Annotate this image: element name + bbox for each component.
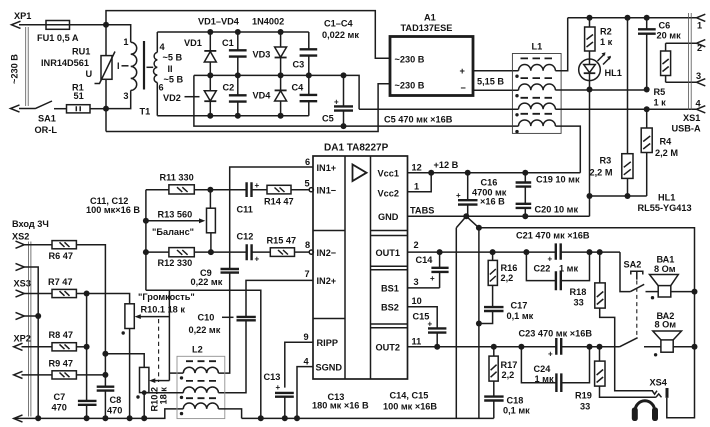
resistor R11 330 — [146, 189, 169, 191]
capacitor C23 470uF — [556, 338, 561, 355]
pin 2 wire OUT1 — [408, 251, 621, 253]
svg-text:R15 47: R15 47 — [267, 236, 297, 246]
wire R5 to XS1 pin3 — [666, 81, 697, 83]
svg-text:R3: R3 — [600, 156, 612, 166]
node C22 split — [523, 249, 529, 255]
pin 5 wire IN1- — [291, 189, 309, 191]
svg-text:C23 470 мк ×16В: C23 470 мк ×16В — [519, 329, 593, 339]
svg-text:A1: A1 — [424, 13, 436, 23]
speaker BA1 8 Ohm — [650, 275, 679, 286]
wire A1 plus output 5,15V — [473, 70, 519, 72]
capacitor C19 10uF — [524, 173, 526, 204]
svg-text:Vcc1: Vcc1 — [378, 169, 399, 179]
resistor R1 51 — [67, 105, 91, 113]
svg-text:VD3: VD3 — [253, 50, 271, 60]
svg-text:R2: R2 — [600, 27, 612, 37]
inductor L1 box — [512, 54, 561, 134]
pin 6 wire IN1+ — [230, 167, 313, 269]
svg-text:180 мк ×16 В: 180 мк ×16 В — [312, 401, 369, 411]
wire bridge middle rail — [194, 75, 359, 109]
svg-text:C21 470 мк ×16В: C21 470 мк ×16В — [516, 231, 590, 241]
svg-text:IN2+: IN2+ — [317, 276, 337, 286]
varistor RU1 INR14D561 — [105, 25, 107, 56]
svg-text:ВА1: ВА1 — [657, 255, 675, 265]
capacitor C1 — [237, 32, 239, 75]
pin 4 wire SGND — [297, 367, 313, 419]
svg-text:×16 В: ×16 В — [480, 197, 505, 207]
node R10.2 feed — [102, 351, 108, 357]
wire +12V rail — [408, 172, 581, 174]
IC DA1 outer box — [313, 156, 408, 379]
node C22 rejoin — [587, 249, 593, 255]
node C24 split — [518, 344, 524, 350]
svg-text:RL55-YG413: RL55-YG413 — [638, 203, 692, 213]
wire R6 to mix vertical — [76, 245, 105, 387]
svg-text:II: II — [168, 64, 173, 74]
wire mains rail to A1 input 2 — [106, 84, 390, 132]
connector XS1 pin3 arrow — [697, 79, 706, 86]
capacitor C24 1uF loop — [521, 347, 589, 383]
node rail C8 — [102, 415, 108, 421]
capacitor C9 0,22uF — [221, 269, 240, 273]
wire XP1 cable double line — [26, 27, 29, 106]
node HL1 return — [587, 193, 593, 199]
svg-text:XP1: XP1 — [14, 11, 31, 21]
svg-text:0,22 мк: 0,22 мк — [189, 325, 221, 335]
resistor R6 47 — [52, 241, 76, 249]
fuse FU1 — [46, 21, 70, 30]
inductor L2 winding 2 — [183, 387, 218, 393]
node speaker return — [476, 225, 482, 231]
svg-text:3: 3 — [123, 91, 128, 101]
inductor L1 winding 1 — [519, 65, 556, 71]
resistor R5 1k — [665, 43, 667, 51]
node mid VD4 — [278, 72, 284, 78]
svg-text:C17: C17 — [511, 301, 528, 311]
svg-text:C5 470 мк ×16В: C5 470 мк ×16В — [384, 115, 453, 125]
pin 7 wire IN2+ — [246, 280, 313, 316]
wire bridge bottom rail — [157, 115, 308, 117]
resistor R14 47 — [267, 185, 291, 194]
wire balance node feed — [146, 290, 261, 418]
svg-text:470: 470 — [52, 403, 67, 413]
resistor R8 47 — [52, 343, 76, 351]
svg-text:+: + — [456, 191, 461, 200]
svg-text:100 мк ×16В: 100 мк ×16В — [383, 402, 437, 412]
svg-text:C14, C15: C14, C15 — [390, 391, 429, 401]
svg-text:RU1: RU1 — [72, 47, 90, 57]
IC DA1 amp triangle — [353, 165, 367, 182]
svg-text:C4: C4 — [292, 83, 305, 93]
resistor R19 33 — [599, 347, 601, 361]
svg-text:6: 6 — [305, 157, 310, 167]
wire ground left vertical — [455, 228, 457, 418]
capacitor C20 10uF — [524, 208, 526, 216]
wire HL1 return — [589, 90, 591, 217]
svg-text:12: 12 — [412, 163, 422, 173]
svg-text:SA2: SA2 — [624, 260, 642, 270]
wire XP2 pin2 to R9 — [22, 374, 53, 376]
wire HL1 to minus line — [589, 81, 591, 90]
wire XS2 pin2 down — [24, 267, 38, 418]
switch SA2 pole 1 — [620, 252, 630, 292]
capacitor C5 electrolytic — [343, 75, 345, 126]
wire C9 down to L2 w1 — [218, 273, 229, 374]
node mid C5 — [341, 72, 347, 78]
svg-text:XS4: XS4 — [650, 378, 668, 388]
resistor R15 47 — [270, 248, 294, 257]
svg-text:IN2−: IN2− — [317, 248, 337, 258]
inductor L1 winding 2 — [519, 84, 556, 90]
connector XS2 pin1 arrow — [16, 241, 25, 248]
wire bottom ground rail right — [242, 417, 494, 419]
pin 8 wire IN2- — [295, 251, 310, 253]
svg-text:2,2: 2,2 — [502, 370, 515, 380]
svg-text:4: 4 — [696, 99, 702, 109]
resistor R17 2,2 — [493, 347, 495, 356]
connector XP1 pin 1 arrow — [12, 21, 21, 28]
svg-text:HL1: HL1 — [605, 68, 622, 78]
potentiometer R10.2 — [140, 367, 149, 392]
svg-text:C1: C1 — [222, 38, 234, 48]
svg-text:9: 9 — [304, 332, 309, 342]
pin 1 Vcc2 jog — [408, 173, 432, 192]
capacitor C4 — [308, 75, 310, 115]
diode VD3 — [280, 32, 282, 75]
resistor R3 2,2M — [627, 18, 629, 154]
svg-text:USB-A: USB-A — [672, 124, 701, 134]
node bottom VD2 — [207, 113, 213, 119]
svg-text:I: I — [117, 61, 120, 71]
node top VD1 — [207, 29, 213, 35]
svg-text:C5: C5 — [322, 114, 334, 124]
svg-text:C20 10 мк: C20 10 мк — [535, 205, 579, 215]
svg-text:1 к: 1 к — [654, 98, 667, 108]
inductor L2 winding 3 — [183, 403, 218, 409]
node R11 C11 R13 — [207, 187, 213, 193]
capacitor C11 — [194, 189, 267, 191]
node mid VD2 — [207, 72, 213, 78]
svg-text:Vcc2: Vcc2 — [378, 189, 399, 199]
resistor R2 1k — [589, 18, 591, 27]
svg-text:C2: C2 — [223, 83, 235, 93]
node R12 left — [143, 249, 149, 255]
diode VD4 — [280, 75, 282, 115]
pin 3 wire BS1 — [408, 287, 440, 289]
svg-text:R8 47: R8 47 — [49, 330, 74, 340]
svg-text:C1–C4: C1–C4 — [324, 19, 353, 29]
switch SA2 gang dashes — [636, 281, 638, 337]
svg-text:R6 47: R6 47 — [49, 251, 74, 261]
svg-text:R16: R16 — [501, 263, 518, 273]
svg-text:+: + — [255, 255, 260, 264]
svg-text:OR-L: OR-L — [35, 125, 58, 135]
svg-text:11: 11 — [412, 337, 422, 347]
svg-text:C24: C24 — [534, 364, 552, 374]
node C6 bottom — [644, 87, 650, 93]
svg-text:INR14D561: INR14D561 — [41, 58, 89, 68]
svg-text:2: 2 — [697, 43, 702, 53]
inductor L2 winding 1 — [183, 367, 218, 373]
wire L1 w1 to USB plus line — [555, 18, 567, 71]
capacitor C6 20uF — [646, 18, 648, 90]
svg-text:C11: C11 — [237, 205, 253, 215]
wire R3 R4 bottom — [590, 195, 647, 197]
diode VD2 — [209, 75, 211, 115]
svg-text:VD4: VD4 — [253, 91, 272, 101]
svg-text:BS2: BS2 — [381, 303, 399, 313]
svg-text:C18: C18 — [507, 396, 524, 406]
connector XP1 pin 2 arrow — [11, 105, 20, 112]
speaker BA2 8 Ohm — [653, 331, 682, 340]
svg-text:8 Ом: 8 Ом — [654, 264, 676, 274]
svg-text:R7 47: R7 47 — [48, 277, 73, 287]
wire trunk to L2 w1 — [169, 372, 183, 374]
svg-text:HL1: HL1 — [658, 193, 675, 203]
transformer T1 secondary winding II — [156, 32, 158, 52]
svg-text:VD2: VD2 — [163, 93, 181, 103]
node feed rail — [258, 415, 264, 421]
svg-text:18 к: 18 к — [159, 387, 169, 405]
svg-text:SGND: SGND — [316, 363, 343, 373]
svg-text:0,22 мк: 0,22 мк — [191, 277, 223, 287]
svg-text:C10: C10 — [198, 313, 215, 323]
connector XS1 pin1 arrow — [697, 14, 706, 21]
wire plus loop to LC rail — [194, 75, 519, 126]
svg-text:100 мк×16 В: 100 мк×16 В — [86, 205, 140, 215]
resistor R4 2,2M — [646, 109, 648, 128]
node C14 — [437, 249, 443, 255]
svg-text:C8: C8 — [110, 395, 122, 405]
inductor L2 box — [177, 356, 225, 418]
node bottom C2 — [235, 113, 241, 119]
node rail XS2 — [35, 415, 41, 421]
svg-text:R10.1 18 к: R10.1 18 к — [141, 305, 186, 315]
node rail C7 — [84, 415, 90, 421]
node R8 junction — [84, 344, 90, 350]
connector XS1 pin2 arrow — [697, 40, 706, 47]
node R7 R8 — [84, 291, 90, 297]
svg-text:2: 2 — [414, 240, 419, 250]
node C19 top — [522, 170, 528, 176]
node rail R10.2 — [141, 415, 147, 421]
node mid C2 — [235, 72, 241, 78]
node pin1 rail — [428, 170, 434, 176]
svg-text:+: + — [276, 383, 281, 392]
node A junction — [103, 22, 109, 28]
svg-text:R14 47: R14 47 — [264, 197, 294, 207]
svg-text:XS1: XS1 — [683, 113, 700, 123]
node w2 R10.2 — [142, 390, 147, 395]
input cable shield lines — [28, 242, 31, 417]
connector XP2 pin1 arrow — [14, 343, 23, 350]
node rail SGND — [294, 415, 300, 421]
node R13 wiper — [143, 218, 149, 224]
wire node B down to mains rail — [105, 109, 107, 132]
node C16 top — [465, 170, 471, 176]
capacitor C10 0,22uF — [237, 317, 256, 320]
wire bottom ground rail left — [14, 409, 184, 419]
svg-text:C13: C13 — [264, 372, 281, 382]
capacitor C18 0,1uF — [484, 397, 503, 401]
transformer T1 core — [143, 41, 145, 90]
svg-text:R13 560: R13 560 — [158, 210, 193, 220]
wire L1 w3 to XS1 pin4 — [555, 108, 696, 110]
svg-text:IN1−: IN1− — [317, 185, 337, 195]
svg-text:OUT2: OUT2 — [376, 343, 401, 353]
svg-text:C22: C22 — [534, 264, 551, 274]
wire ground right vertical — [478, 228, 480, 418]
connector XS1 pin4 arrow — [697, 106, 706, 113]
svg-text:R9 47: R9 47 — [49, 359, 74, 369]
node C5 bottom — [341, 123, 347, 129]
wire XS3 pin1 to R7 — [24, 293, 52, 295]
wire R7 R8 C7 vertical — [86, 294, 88, 401]
capacitor C7 470 — [78, 401, 97, 405]
node R9 junction — [102, 372, 108, 378]
svg-text:DA1 TA8227P: DA1 TA8227P — [324, 143, 389, 154]
svg-text:L2: L2 — [192, 345, 203, 355]
wire R9 to mix vertical — [76, 374, 105, 376]
wire R8 to mix vertical — [76, 346, 86, 348]
svg-text:C12: C12 — [237, 232, 254, 242]
svg-text:U: U — [86, 69, 93, 79]
svg-text:10: 10 — [412, 296, 422, 306]
wire L2 w3 right to ground rail — [218, 409, 241, 419]
node BA2 return — [692, 344, 698, 350]
svg-text:T1: T1 — [140, 107, 151, 117]
svg-text:BS1: BS1 — [381, 284, 399, 294]
resistor R9 47 — [52, 371, 76, 379]
node bottom VD4 — [278, 113, 284, 119]
svg-text:"Громкость": "Громкость" — [138, 292, 195, 302]
wire L1 w2 minus line — [555, 89, 646, 91]
svg-text:C16: C16 — [481, 178, 498, 188]
svg-text:R4: R4 — [660, 137, 673, 147]
svg-text:SA1: SA1 — [38, 114, 56, 124]
node BA1 return — [692, 289, 698, 295]
svg-text:1N4002: 1N4002 — [252, 17, 284, 27]
connector XS3 pin1 arrow — [16, 290, 25, 297]
svg-text:33: 33 — [574, 298, 584, 308]
node TABS C20 — [522, 213, 528, 219]
pin 11 wire OUT2 — [408, 346, 620, 348]
node R12 C12 R13 — [208, 249, 214, 255]
resistor R12 330 — [146, 251, 169, 253]
svg-text:20 мк: 20 мк — [657, 31, 682, 41]
node XS3 pin2 — [35, 313, 41, 319]
svg-text:51: 51 — [74, 91, 84, 101]
wire speaker return rail — [479, 228, 695, 418]
connector XS3 pin2 arrow — [16, 312, 25, 319]
connector XP2 pin2 arrow — [14, 371, 23, 378]
switch SA1 — [19, 108, 35, 110]
node C15 OUT2 — [434, 344, 440, 350]
svg-text:470: 470 — [107, 406, 122, 416]
node mid C4 — [306, 72, 312, 78]
node C24 rejoin — [587, 344, 593, 350]
node top VD3 — [278, 29, 284, 35]
svg-text:L1: L1 — [532, 42, 543, 52]
wire balance left vertical — [145, 190, 147, 291]
transformer T1 primary — [106, 25, 131, 43]
svg-text:1: 1 — [697, 21, 702, 31]
node R2 top — [587, 15, 593, 21]
LED HL1 — [589, 51, 591, 59]
svg-text:8: 8 — [305, 240, 310, 250]
svg-text:5: 5 — [305, 179, 310, 189]
svg-text:Вход 3Ч: Вход 3Ч — [12, 219, 49, 229]
node R3 top — [625, 15, 631, 21]
svg-text:+12 В: +12 В — [434, 160, 459, 170]
wire XS3 pin2 stub — [24, 315, 38, 317]
inductor L1 winding 3 — [519, 103, 556, 109]
connector XS2 pin2 arrow — [16, 263, 25, 270]
svg-text:"Баланс": "Баланс" — [152, 227, 194, 237]
svg-text:C3: C3 — [293, 60, 305, 70]
capacitor C2 — [237, 75, 239, 115]
svg-text:2,2 М: 2,2 М — [590, 168, 613, 178]
wire XP1 to FU1 — [19, 24, 106, 26]
switch SA2 pole 2 — [620, 338, 638, 347]
wire top border to A1 input 1 — [106, 11, 390, 59]
svg-text:1: 1 — [123, 37, 128, 47]
capacitor C12 — [194, 251, 270, 253]
wire SA1 to R1 — [54, 108, 67, 110]
node rail R10.1 — [127, 415, 133, 421]
node R17 top — [491, 344, 497, 350]
capacitor C3 — [308, 32, 310, 75]
gang link dashes R10 — [158, 319, 160, 382]
svg-text:0,022 мк: 0,022 мк — [322, 30, 359, 40]
diode VD1 — [209, 32, 211, 75]
svg-text:+: + — [430, 274, 435, 283]
wire A1 minus output — [473, 89, 519, 91]
wire USB top rail — [568, 17, 697, 19]
svg-text:0,1 мк: 0,1 мк — [503, 406, 530, 416]
svg-text:C7: C7 — [54, 392, 66, 402]
resistor R18 33 — [599, 252, 601, 283]
node R18 top — [597, 249, 603, 255]
IC DA1 partitions — [345, 156, 371, 379]
svg-text:−: − — [461, 83, 466, 93]
svg-text:+: + — [460, 66, 465, 76]
svg-text:7: 7 — [305, 269, 310, 279]
wire L2 w2 left to R10.2 — [144, 392, 183, 394]
svg-text:RIPP: RIPP — [317, 338, 338, 348]
wire C10 down to L2 w2 — [218, 320, 246, 393]
svg-text:TABS: TABS — [410, 206, 434, 216]
wire XS2 pin1 to R6 — [24, 244, 52, 246]
svg-text:~5 В: ~5 В — [163, 53, 183, 63]
svg-text:+: + — [548, 350, 553, 359]
node C6 top — [644, 15, 650, 21]
svg-text:8 Ом: 8 Ом — [655, 320, 677, 330]
resistor R16 2,2 — [492, 252, 494, 260]
capacitor C21 470uF — [556, 243, 561, 259]
svg-text:VD1: VD1 — [184, 38, 202, 48]
wire L1 w4 to +12V rail — [555, 126, 580, 173]
svg-text:IN1+: IN1+ — [317, 163, 337, 173]
wire rectifier plus to L1 winding 3 — [359, 108, 518, 110]
capacitor C8 470 — [97, 387, 115, 391]
svg-text:R17: R17 — [501, 360, 518, 370]
svg-text:~5 В: ~5 В — [164, 75, 184, 85]
svg-text:R18: R18 — [570, 287, 587, 297]
headphones icon — [635, 401, 654, 411]
svg-text:C19 10 мк: C19 10 мк — [536, 175, 580, 185]
node R19 top — [597, 344, 603, 350]
